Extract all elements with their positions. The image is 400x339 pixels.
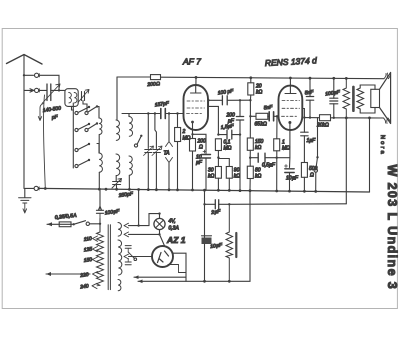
arrow PSU bottom heater bbox=[138, 280, 143, 284]
wire trimmer down to switch bbox=[83, 101, 87, 113]
wire HT feed horizontal bbox=[229, 203, 346, 206]
wire L2 top from HT rail drop bbox=[116, 77, 118, 120]
wire 20k node down to grid row bbox=[249, 100, 251, 116]
svg-text:220: 220 bbox=[79, 272, 89, 279]
wire 10uF to bus bbox=[289, 173, 291, 192]
svg-text:Ω: Ω bbox=[199, 145, 203, 151]
tube RENS 1374d bbox=[279, 86, 303, 130]
svg-text:4V,: 4V, bbox=[169, 219, 176, 225]
capacitor 1,5uF bbox=[227, 130, 232, 139]
jack ground terminal bbox=[34, 186, 38, 190]
svg-text:1,5µF: 1,5µF bbox=[220, 123, 235, 131]
resistor 20k ohm tone bbox=[320, 115, 331, 121]
capacitor 2uF bbox=[215, 200, 218, 209]
svg-text:157pF: 157pF bbox=[154, 100, 170, 108]
jack A2 bbox=[35, 88, 39, 92]
wire L3 bottom to bus bbox=[128, 176, 130, 190]
capacitor 5nF rail bbox=[306, 97, 313, 101]
resistor 200 ohm rail bbox=[151, 75, 161, 80]
wire secondary to voice coil bbox=[360, 85, 375, 113]
wire RENS cathode down bbox=[289, 124, 291, 168]
ground arrow indicator bbox=[38, 104, 43, 121]
svg-text:65 kΩ: 65 kΩ bbox=[255, 122, 267, 128]
svg-text:Ω: Ω bbox=[310, 173, 314, 179]
wire AF7 screen out bbox=[208, 100, 218, 134]
capacitor 157pF bbox=[161, 109, 166, 119]
tube AF7 bbox=[184, 85, 209, 130]
svg-text:1µF: 1µF bbox=[307, 138, 317, 144]
tap 150 bbox=[93, 257, 98, 262]
jack A1 bbox=[35, 73, 39, 77]
wire 2M ohm drop bbox=[177, 114, 179, 128]
svg-text:110: 110 bbox=[83, 236, 92, 243]
coil L1 lower bbox=[99, 153, 102, 172]
switch contact mid-coil bbox=[134, 144, 137, 147]
tap S1 a bbox=[124, 223, 129, 228]
wire RENS screen out bbox=[302, 109, 304, 118]
capacitor 200pF bbox=[236, 117, 243, 121]
switch tone bbox=[317, 118, 319, 158]
RENS cathode bbox=[288, 121, 291, 124]
coil L3 upper bbox=[129, 116, 133, 136]
speaker voice coil bbox=[371, 89, 380, 107]
wire PSU bottom bbox=[138, 191, 250, 282]
wire jack A2 to C ant bbox=[39, 89, 47, 91]
bus junction dots bbox=[44, 187, 47, 190]
jack TA lower bbox=[166, 158, 173, 163]
wire AZ1 lower loop bbox=[168, 265, 186, 273]
wire 200pF node to bus bbox=[239, 135, 241, 191]
capacitor HT tap a bbox=[125, 246, 131, 249]
svg-text:kΩ: kΩ bbox=[256, 90, 263, 96]
svg-text:kΩ: kΩ bbox=[208, 174, 215, 180]
svg-text:200 Ω: 200 Ω bbox=[146, 81, 160, 88]
transformer core bbox=[108, 225, 110, 290]
tube AZ1 bbox=[152, 246, 173, 267]
node primary bottom bbox=[345, 117, 348, 120]
wire 100pF row bbox=[209, 99, 251, 101]
wire AZ1 right loop bbox=[173, 253, 186, 281]
connector fork top bbox=[384, 73, 391, 79]
capacitor 140-500pF variable bbox=[47, 84, 51, 101]
band switch common column bbox=[72, 103, 74, 168]
antenna coil winding b bbox=[74, 92, 77, 102]
coil L2 lower bbox=[116, 154, 120, 176]
svg-text:0,25/0,5 A: 0,25/0,5 A bbox=[55, 213, 78, 221]
wire heater line 2 bbox=[134, 276, 186, 278]
wire AF7 cathode down bbox=[192, 130, 194, 134]
svg-text:5nF: 5nF bbox=[304, 89, 314, 96]
output transformer secondary bbox=[357, 85, 364, 113]
arrow into jack A2 bbox=[24, 89, 34, 92]
svg-text:125: 125 bbox=[83, 246, 92, 253]
antenna coil box bbox=[65, 89, 78, 107]
capacitor HT tap b bbox=[125, 262, 131, 265]
arrow mains input bbox=[47, 222, 52, 226]
tap 240 bbox=[92, 283, 100, 288]
switch contact S2 bbox=[75, 128, 78, 131]
node grid row 2 bbox=[154, 112, 156, 114]
wire L1 bottom to bus bbox=[98, 172, 100, 189]
svg-text:100 µF: 100 µF bbox=[325, 89, 341, 97]
output transformer core bbox=[352, 87, 355, 111]
wire C ant to coil box bbox=[51, 89, 65, 91]
wire 5nF to RENS grid bbox=[274, 115, 279, 117]
capacitor 1uF bbox=[301, 132, 308, 136]
wire speaker vertical to bus bbox=[369, 118, 371, 192]
wire lamp to AZ1 bbox=[160, 234, 165, 246]
svg-text:2: 2 bbox=[182, 129, 186, 135]
svg-text:100 pF: 100 pF bbox=[217, 88, 234, 96]
switch contact S4 bbox=[75, 164, 78, 167]
wire box bottom to switch column bbox=[72, 106, 74, 110]
AF7 plate bbox=[191, 85, 202, 93]
jack TA upper bbox=[166, 142, 173, 147]
tap 125 bbox=[93, 247, 98, 252]
svg-text:0,5µF: 0,5µF bbox=[262, 163, 276, 169]
choke core bbox=[235, 233, 237, 257]
wire antenna to jack A1 bbox=[24, 74, 34, 76]
node speaker line bbox=[368, 117, 371, 120]
speaker cone bbox=[380, 73, 391, 124]
resistor 500 ohm bbox=[301, 163, 307, 178]
node 5nF bottom bbox=[309, 116, 311, 118]
capacitor 100uF rail bbox=[330, 98, 338, 104]
node antenna T bbox=[23, 74, 25, 76]
wire AF7 grid row bbox=[122, 113, 184, 115]
svg-text:100 µF: 100 µF bbox=[104, 208, 120, 216]
capacitor 100uF line trimmer bbox=[99, 189, 101, 207]
wire L1 mid link bbox=[98, 135, 100, 153]
wire 200pF drop bbox=[239, 100, 241, 134]
svg-text:150: 150 bbox=[83, 257, 92, 264]
resistor 2 Mohm bbox=[175, 128, 181, 142]
svg-text:140-500: 140-500 bbox=[42, 105, 61, 114]
wire cathode bypass branch bbox=[193, 134, 207, 153]
antenna bbox=[7, 55, 43, 65]
svg-text:250pF: 250pF bbox=[117, 191, 134, 199]
antenna coil winding a bbox=[69, 92, 72, 102]
wire trimmer T1 drop bbox=[147, 114, 149, 149]
resistor 0,1M ohm bbox=[215, 139, 221, 151]
wire jack A1 to bypass bbox=[39, 75, 59, 90]
svg-text:kΩ: kΩ bbox=[255, 174, 262, 180]
wire trimmer T2 to bus bbox=[155, 153, 157, 191]
switch contact S1 bbox=[75, 111, 78, 114]
transformer primary winding bbox=[97, 232, 104, 285]
svg-text:5nF: 5nF bbox=[263, 104, 273, 111]
capacitor 10uF cathode electrolytic bbox=[202, 155, 211, 159]
wire 10uF to bottom bbox=[204, 244, 206, 281]
wire to primary top bbox=[99, 219, 101, 233]
wire TA jack drop bbox=[168, 114, 170, 142]
node grid row 1 bbox=[147, 112, 149, 114]
tap S2 center bbox=[124, 254, 129, 259]
fuse 0,25/0,5A bbox=[59, 222, 71, 227]
resistor 200 ohm cathode bbox=[190, 139, 196, 152]
node grid row 3 bbox=[168, 112, 170, 114]
capacitor 100pF bbox=[222, 96, 227, 105]
tap 220 with wire bbox=[93, 272, 98, 277]
svg-text:TA: TA bbox=[164, 151, 171, 157]
HT top rail bbox=[117, 77, 384, 79]
wire L3 top stub bbox=[128, 114, 130, 117]
wire curved to ground bus bbox=[44, 95, 46, 189]
switch contact S3 bbox=[75, 148, 78, 151]
wire RENS plate to rail bbox=[289, 78, 291, 86]
svg-text:10 µF: 10 µF bbox=[286, 176, 299, 182]
resistor 1M ohm bbox=[274, 139, 280, 151]
svg-text:2 µF: 2 µF bbox=[210, 209, 222, 216]
svg-text:AF 7: AF 7 bbox=[182, 57, 201, 67]
resistor 20k ohm from rail bbox=[248, 83, 254, 95]
svg-text:AZ 1: AZ 1 bbox=[166, 235, 186, 245]
coil L3 lower bbox=[129, 156, 132, 175]
resistor 150k ohm bbox=[247, 138, 253, 150]
wire 1,5uF row bbox=[218, 134, 240, 136]
connector fork bottom bbox=[384, 118, 391, 124]
coil L1 upper bbox=[99, 118, 102, 135]
ground bus bbox=[39, 188, 370, 192]
wire HT riser bbox=[345, 118, 347, 204]
wire trimmer T2 drop bbox=[155, 114, 157, 149]
wire TA to bus bbox=[168, 163, 170, 191]
switch contact S6 bbox=[85, 128, 88, 131]
AZ1 electrodes bbox=[158, 251, 169, 263]
svg-text:kΩ: kΩ bbox=[255, 145, 262, 151]
wire bus to heater bbox=[138, 190, 140, 226]
lamp 4V 0,3A bbox=[154, 218, 165, 229]
capacitor trimmer T2 bbox=[153, 150, 160, 153]
resistor 90k ohm bbox=[226, 167, 232, 179]
capacitor 10uF PSU electrolytic bbox=[204, 204, 206, 237]
wire lamp bottom bbox=[159, 230, 161, 235]
arrow heater line 2 bbox=[134, 275, 139, 279]
capacitor 0,5uF bbox=[258, 153, 265, 162]
wire to coil L1 top bbox=[97, 107, 99, 119]
RENS plate bbox=[285, 86, 296, 94]
RENS grid rows bbox=[282, 100, 300, 102]
svg-text:RENS 1374 d: RENS 1374 d bbox=[265, 55, 318, 68]
wire antenna lead down bbox=[23, 55, 25, 189]
svg-text:10 µF: 10 µF bbox=[210, 242, 224, 250]
coil L2 upper bbox=[116, 120, 120, 140]
wire 2M ohm to bus bbox=[177, 142, 179, 191]
secondary winding S3 bbox=[118, 279, 121, 290]
wire speaker bottom line bbox=[370, 117, 384, 119]
svg-text:0,3A: 0,3A bbox=[169, 226, 180, 232]
AF7 grid rows bbox=[187, 100, 205, 102]
switch contact S5 bbox=[85, 111, 88, 114]
switch HT tap bbox=[128, 252, 134, 259]
svg-text:MΩ: MΩ bbox=[282, 146, 290, 152]
secondary winding S1 bbox=[118, 222, 122, 236]
wire PSU left vertical bbox=[204, 190, 206, 204]
capacitor 5nF grid bbox=[269, 112, 273, 121]
svg-text:kΩ: kΩ bbox=[234, 174, 241, 180]
wire to coil L2 lower top bbox=[97, 144, 99, 154]
capacitor 10uF RENS electrolytic bbox=[285, 169, 294, 173]
node grid row 4 bbox=[176, 112, 178, 114]
secondary winding S2 HT bbox=[118, 240, 122, 275]
tap S1 b bbox=[124, 232, 129, 237]
svg-text:Nora: Nora bbox=[379, 135, 385, 156]
ground symbol bbox=[19, 198, 31, 203]
resistor 65k ohm bbox=[256, 113, 268, 119]
wire trimmer to bus bbox=[115, 185, 117, 190]
resistor 30k ohm bbox=[215, 167, 221, 179]
wire trimmer T1 to bus bbox=[147, 153, 149, 191]
wire AZ1 left bbox=[129, 256, 153, 258]
rail junction dots bbox=[195, 76, 198, 79]
switch mains bbox=[71, 223, 73, 225]
AF7 cathode bbox=[191, 121, 194, 124]
capacitor trimmer at coil box bbox=[82, 92, 85, 101]
svg-text:µF: µF bbox=[196, 160, 203, 166]
svg-text:pF: pF bbox=[50, 114, 59, 121]
svg-text:240: 240 bbox=[79, 283, 89, 290]
svg-text:W 203 L Undine 3: W 203 L Undine 3 bbox=[385, 165, 399, 291]
capacitor 250pF trimmer bbox=[113, 182, 121, 185]
node bypass join bbox=[58, 89, 60, 91]
capacitor trimmer T1 bbox=[145, 150, 152, 153]
wire bypass to bus bbox=[205, 158, 207, 190]
wire L2 bottom to trimmer bbox=[115, 176, 117, 181]
node 1M crossing bbox=[276, 157, 278, 159]
wire lamp circuit top bbox=[129, 214, 160, 226]
resistor 80k ohm bbox=[247, 166, 253, 178]
wire 0,5uF row bbox=[250, 157, 289, 159]
svg-text:MΩ: MΩ bbox=[224, 146, 232, 152]
wire branch to 90k bbox=[218, 159, 229, 167]
wire tone row right bbox=[304, 117, 369, 119]
wire AF7 plate to rail bbox=[195, 77, 197, 85]
choke field coil bbox=[226, 204, 233, 281]
tap 110 bbox=[93, 236, 98, 241]
output transformer primary bbox=[343, 78, 350, 118]
